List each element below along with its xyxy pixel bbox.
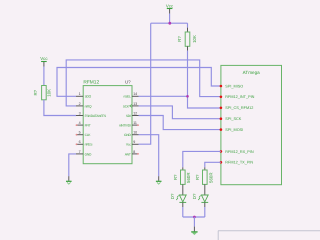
ATmega pin SPI_SCK [220, 117, 242, 121]
wire net MISO: RFM12 SDO to ATmega SPI_MISO [57, 68, 221, 97]
svg-text:nIRQ: nIRQ [85, 104, 92, 108]
svg-text:10K: 10K [192, 35, 197, 43]
svg-text:RFM12_INT_PIN: RFM12_INT_PIN [225, 95, 254, 99]
resistor R1 10K (pull-up on FSK) [33, 86, 51, 100]
lead R4 to D1 [182, 184, 184, 195]
svg-text:RFM12: RFM12 [83, 80, 99, 86]
junction dot [186, 95, 189, 98]
resistor R5 560R [195, 170, 213, 184]
IC U? RFM12 module [83, 79, 132, 163]
svg-text:10: 10 [133, 131, 137, 135]
svg-text:2: 2 [79, 102, 81, 106]
lead R5 to D2 [204, 184, 206, 195]
ground (LED rail) [191, 232, 197, 235]
svg-text:SPI_SCK: SPI_SCK [225, 117, 242, 121]
svg-text:R?: R? [177, 36, 182, 42]
wire top rail into resistor R2 [187, 23, 189, 27]
pin 4 FFIT (n.c.) [76, 121, 91, 128]
svg-text:D?: D? [192, 193, 197, 199]
wire Vcc to resistor R1 top [43, 67, 45, 86]
wire rail down to ground [193, 217, 195, 227]
pin 7 GND [76, 150, 92, 157]
pin 9 Vcc [126, 140, 139, 147]
svg-text:nINT/VDI: nINT/VDI [119, 124, 131, 128]
svg-text:D?: D? [170, 193, 175, 199]
svg-text:nRES: nRES [85, 143, 94, 147]
ATmega pin RFM12_TX_PIN [220, 161, 254, 165]
wire RFM12_RX_PIN to R4 [183, 151, 221, 167]
svg-text:SDO: SDO [85, 95, 92, 99]
svg-text:SCK: SCK [123, 104, 130, 108]
pin 13 SCK (clock) [123, 102, 139, 109]
svg-text:GND: GND [124, 133, 131, 137]
svg-text:6: 6 [79, 140, 81, 144]
svg-text:3: 3 [79, 111, 81, 115]
wire R2 bottom down to SPI_CS, through nSEL junction [187, 46, 189, 50]
pin 5 CLK (n.c.) [76, 131, 92, 138]
svg-text:Vcc: Vcc [40, 56, 48, 61]
pin 3 FSK/DATA/nFFS [76, 111, 107, 118]
svg-text:ANT: ANT [125, 152, 131, 156]
pin 10 GND [124, 131, 138, 138]
svg-text:12: 12 [133, 111, 137, 115]
pin 1 SDO [76, 92, 92, 99]
svg-text:ATmega: ATmega [243, 70, 260, 75]
supply symbol Vcc (top middle) [166, 4, 174, 14]
svg-text:SPI_MOSI: SPI_MOSI [225, 128, 243, 132]
svg-text:RFM12_RX_PIN: RFM12_RX_PIN [225, 150, 254, 154]
svg-text:5: 5 [79, 131, 81, 135]
pin 14 nSEL [124, 92, 139, 99]
wire Vcc branch down to RFM12 Vcc pin 9 [139, 23, 151, 144]
lead D1 to rail [182, 202, 184, 207]
svg-text:560R: 560R [186, 172, 191, 183]
wire RFM12 nSEL pin 14 to pull-up junction [139, 95, 188, 97]
wire net SCK: RFM12 SCK to ATmega SPI_SCK [139, 106, 221, 119]
svg-text:13: 13 [133, 102, 137, 106]
svg-text:10K: 10K [47, 89, 52, 97]
svg-text:SDI: SDI [126, 114, 131, 118]
svg-text:FFIT: FFIT [85, 124, 91, 128]
LED D1 [170, 193, 186, 202]
ATmega pin SPI_CS_RFM12 [220, 106, 254, 110]
svg-text:Vcc: Vcc [166, 4, 174, 9]
svg-text:560R: 560R [209, 172, 214, 183]
svg-text:1: 1 [79, 92, 81, 96]
svg-text:FSK/DATA/nFFS: FSK/DATA/nFFS [85, 114, 107, 118]
svg-text:R?: R? [33, 89, 38, 95]
wire R1 bottom to RFM12 pin 3 [44, 100, 76, 116]
wire RFM12 GND pin 10 down to ground [139, 135, 159, 177]
svg-text:8: 8 [133, 150, 135, 154]
wire top rail to R2 and left branch [151, 22, 188, 24]
pin 12 SDI [126, 111, 139, 118]
svg-text:14: 14 [133, 92, 137, 96]
ATmega pin RFM12_INT_PIN [220, 95, 255, 99]
wire net INT: RFM12 nIRQ to ATmega RFM12_INT_PIN [66, 60, 221, 106]
frame border corner [218, 231, 320, 240]
ATmega pin RFM12_RX_PIN [220, 150, 254, 154]
svg-text:4: 4 [79, 121, 81, 125]
svg-text:R?: R? [195, 174, 200, 180]
junction dot [193, 216, 196, 219]
svg-text:GND: GND [85, 152, 92, 156]
svg-text:SPI_CS_RFM12: SPI_CS_RFM12 [225, 106, 253, 110]
svg-text:11: 11 [133, 121, 137, 125]
pin 2 nIRQ [76, 102, 92, 109]
LED D2 [192, 193, 208, 202]
svg-text:SPI_MISO: SPI_MISO [225, 84, 243, 88]
wire RFM12_TX_PIN to R5 [205, 162, 221, 167]
wire Vcc down to top rail [169, 14, 171, 24]
resistor R2 10K (pull-up on nSEL) [177, 32, 197, 46]
svg-text:Vcc: Vcc [126, 143, 131, 147]
ATmega pin SPI_MOSI [220, 128, 244, 132]
svg-text:7: 7 [79, 150, 81, 154]
wire bottom rail [183, 216, 205, 218]
svg-text:nSEL: nSEL [124, 95, 131, 99]
wire RFM12 GND pin 7 down to ground [69, 154, 76, 176]
lead D2 to rail [204, 202, 206, 207]
ground (pin 7) [66, 181, 72, 184]
resistor R4 560R [173, 170, 191, 184]
svg-text:R?: R? [173, 174, 178, 180]
svg-text:RFM12_TX_PIN: RFM12_TX_PIN [225, 161, 253, 165]
wire net MOSI: RFM12 SDI to ATmega SPI_MOSI [139, 116, 221, 130]
ground (pin 10) [156, 181, 162, 184]
IC ATmega (partial block) [221, 65, 282, 184]
pin 11 nINT/VDI [119, 121, 139, 128]
pin 8 ANT (n.c.) [125, 150, 139, 157]
pin 6 nRES (n.c.) [76, 140, 94, 147]
junction dot [168, 22, 171, 25]
svg-text:U?: U? [125, 79, 131, 84]
supply symbol Vcc (left, above R1) [40, 56, 48, 66]
ATmega pin SPI_MISO [220, 84, 244, 88]
svg-text:9: 9 [133, 140, 135, 144]
